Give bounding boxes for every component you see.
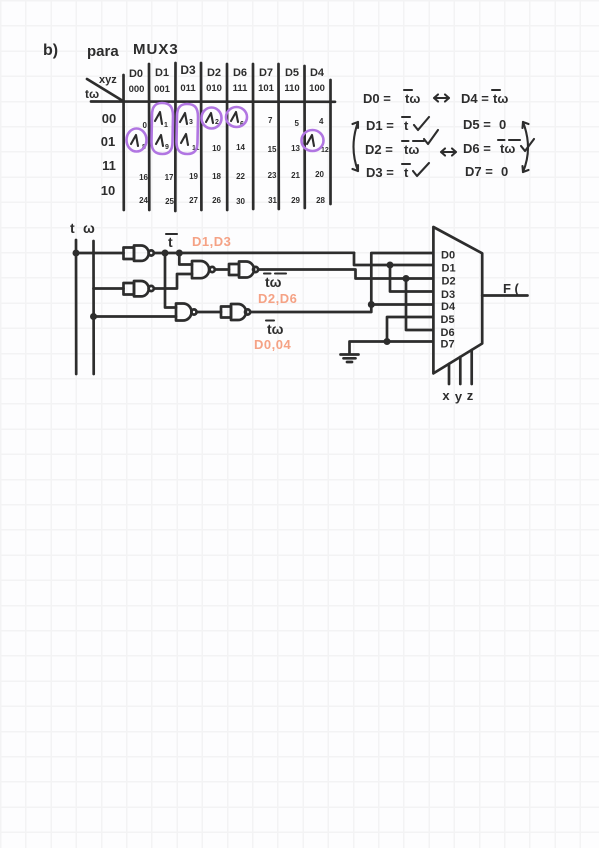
- NAND N1: [192, 261, 215, 278]
- svg-text:D6 =: D6 =: [463, 141, 491, 156]
- svg-text:D5: D5: [285, 67, 299, 79]
- wire tbar output: [154, 251, 354, 254]
- equation D5: [463, 117, 506, 132]
- svg-text:D2: D2: [207, 67, 221, 79]
- wire branch to D6: [406, 279, 433, 331]
- inverter U4: [221, 304, 250, 320]
- svg-text:D4: D4: [441, 301, 456, 313]
- wire tbar w to D0: [250, 253, 433, 312]
- svg-text:ω: ω: [83, 220, 95, 236]
- node label tbar wbar: [264, 274, 286, 291]
- svg-text:D3 =: D3 =: [366, 165, 394, 180]
- svg-text:D1: D1: [442, 263, 456, 275]
- svg-text:D6: D6: [233, 67, 247, 79]
- junction tbar A: [162, 250, 169, 257]
- table column headers: [129, 63, 325, 80]
- svg-text:21: 21: [291, 171, 300, 180]
- junction tbar B: [176, 250, 183, 257]
- svg-text:D0 =: D0 =: [363, 91, 391, 106]
- svg-text:D2 =: D2 =: [365, 142, 393, 157]
- net label D1,D3: [192, 234, 231, 249]
- junction D1/D3: [387, 262, 394, 269]
- wire tbar wbar to D2: [258, 270, 433, 279]
- table header bottom line: [91, 100, 335, 103]
- table column line 1: [122, 75, 125, 210]
- wire w to NAND N2: [94, 315, 177, 318]
- input labels t w: [70, 220, 95, 236]
- svg-text:D7: D7: [259, 67, 273, 79]
- wire branch to D5: [387, 317, 433, 342]
- svg-text:110: 110: [284, 83, 299, 94]
- svg-text:29: 29: [291, 196, 300, 205]
- svg-text:7: 7: [268, 116, 273, 125]
- svg-text:para: para: [87, 43, 119, 60]
- ground symbol: [341, 355, 359, 363]
- svg-text:0: 0: [501, 164, 508, 179]
- select line x: [448, 364, 451, 384]
- inverter U3: [229, 262, 258, 278]
- equation D2: [365, 130, 456, 157]
- minterm numbers row 10: [139, 196, 325, 206]
- table column line 6: [252, 64, 255, 209]
- svg-text:D7: D7: [441, 339, 455, 351]
- svg-text:26: 26: [212, 196, 221, 205]
- svg-text:D0,04: D0,04: [254, 337, 291, 352]
- svg-text:0: 0: [143, 121, 148, 130]
- wire tbar down to NAND N1: [179, 253, 192, 265]
- svg-text:D2: D2: [442, 276, 456, 288]
- svg-text:22: 22: [236, 172, 245, 181]
- table column line 5: [226, 64, 229, 210]
- svg-text:1: 1: [164, 122, 168, 129]
- svg-text:D1,D3: D1,D3: [192, 234, 231, 249]
- svg-text:001: 001: [154, 84, 171, 95]
- table column line 2: [148, 64, 151, 210]
- mux pin labels D0-D7: [441, 250, 456, 351]
- wire w to inverter U2: [94, 287, 124, 290]
- wire tbar down to NAND N2: [165, 253, 176, 308]
- svg-text:D4 =: D4 =: [461, 91, 489, 106]
- svg-text:10: 10: [101, 183, 115, 198]
- NAND N2: [176, 304, 197, 321]
- table column line 7: [277, 64, 280, 209]
- w rail: [92, 241, 95, 374]
- select line z: [470, 350, 473, 384]
- svg-text:tω: tω: [500, 141, 515, 156]
- table column line 8: [303, 66, 306, 208]
- minterm numbers row 01: [212, 143, 300, 154]
- junction D5/D7: [384, 338, 391, 345]
- svg-text:010: 010: [206, 83, 222, 94]
- svg-text:12: 12: [321, 147, 329, 154]
- table column line 4: [200, 63, 203, 210]
- svg-text:x: x: [442, 388, 450, 403]
- svg-text:D6: D6: [441, 327, 455, 339]
- select labels x y z: [442, 388, 473, 404]
- handwritten 1 marks with subscripts: [131, 112, 329, 154]
- svg-text:F (: F (: [503, 281, 520, 296]
- svg-text:100: 100: [309, 83, 325, 94]
- equation D6: [463, 139, 534, 156]
- table code row: [129, 83, 325, 95]
- wire ground to D7: [350, 342, 434, 354]
- table column line 3: [174, 63, 177, 211]
- svg-text:D1 =: D1 =: [366, 118, 394, 133]
- svg-text:tω: tω: [267, 321, 284, 337]
- svg-text:14: 14: [236, 143, 245, 152]
- select line y: [459, 357, 462, 384]
- svg-text:31: 31: [268, 196, 277, 205]
- title b) para MUX3: [43, 41, 179, 60]
- svg-text:D4: D4: [310, 67, 325, 79]
- node label tbar w: [266, 321, 284, 338]
- net label D0,04: [254, 337, 291, 352]
- inverter U2 (w): [124, 281, 154, 296]
- svg-text:00: 00: [102, 111, 116, 126]
- svg-text:10: 10: [212, 144, 221, 153]
- output wire F: [482, 294, 527, 297]
- svg-text:3: 3: [189, 119, 193, 126]
- svg-text:MUX3: MUX3: [133, 41, 179, 58]
- svg-text:b): b): [43, 42, 58, 59]
- table right edge line: [329, 80, 332, 204]
- svg-text:t: t: [404, 165, 409, 180]
- svg-text:D1: D1: [155, 67, 169, 79]
- purple loop D4 cell: [302, 130, 324, 151]
- svg-text:D3: D3: [441, 289, 455, 301]
- purple loop D0 cell: [127, 129, 147, 152]
- svg-text:19: 19: [189, 172, 198, 181]
- multiplexer MUX3 body: [433, 227, 482, 373]
- junction D0/D4: [368, 301, 375, 308]
- svg-text:16: 16: [139, 173, 148, 182]
- svg-text:t: t: [404, 118, 409, 133]
- svg-text:tω: tω: [265, 274, 282, 290]
- wire branch to D3: [390, 265, 433, 292]
- svg-text:17: 17: [165, 173, 174, 182]
- svg-text:D5 =: D5 =: [463, 117, 491, 132]
- svg-text:D0: D0: [441, 250, 455, 262]
- svg-text:9: 9: [165, 144, 169, 151]
- svg-text:tω: tω: [85, 87, 99, 101]
- wire wbar to NAND N1: [154, 274, 192, 289]
- svg-text:30: 30: [236, 197, 245, 206]
- inverter U1 (t): [124, 246, 154, 261]
- svg-text:D7 =: D7 =: [465, 164, 493, 179]
- net label D2,D6: [258, 291, 297, 306]
- svg-text:D0: D0: [129, 68, 143, 80]
- svg-text:4: 4: [319, 117, 324, 126]
- svg-text:01: 01: [101, 134, 115, 149]
- equation D1: [366, 117, 429, 133]
- output label F(: [503, 281, 520, 296]
- purple loop D2 cell: [202, 108, 222, 129]
- svg-text:25: 25: [165, 197, 174, 206]
- svg-text:D2,D6: D2,D6: [258, 291, 297, 306]
- purple loop D6 cell: [226, 107, 247, 127]
- purple loop D1 column: [152, 103, 174, 154]
- svg-text:111: 111: [233, 83, 249, 94]
- wire N2 to inverter U4: [197, 311, 221, 314]
- svg-text:tω: tω: [493, 91, 508, 106]
- svg-text:23: 23: [268, 171, 277, 180]
- minterm numbers row 11: [139, 170, 324, 182]
- svg-text:27: 27: [189, 196, 198, 205]
- svg-text:101: 101: [258, 83, 275, 94]
- svg-text:15: 15: [268, 145, 277, 154]
- minterm numbers row 00: [143, 116, 325, 130]
- right swap arrow D5-D7: [523, 122, 529, 172]
- equation D7: [465, 164, 508, 179]
- svg-text:D3: D3: [180, 63, 196, 77]
- junction t rail: [73, 250, 80, 257]
- wire branch to D4: [371, 303, 433, 306]
- svg-text:20: 20: [315, 170, 324, 179]
- wire N1 to inverter U3: [215, 268, 229, 271]
- svg-text:24: 24: [139, 196, 148, 205]
- t rail: [75, 240, 78, 374]
- svg-text:28: 28: [316, 196, 325, 205]
- wire tbar to D1: [354, 253, 433, 265]
- equation D4: [461, 90, 508, 106]
- svg-text:0: 0: [499, 117, 506, 132]
- svg-text:18: 18: [212, 172, 221, 181]
- junction w rail: [90, 313, 97, 320]
- svg-text:13: 13: [291, 144, 300, 153]
- node label tbar: [166, 234, 177, 250]
- svg-text:t: t: [168, 234, 173, 250]
- equation D3: [366, 163, 429, 180]
- svg-text:11: 11: [102, 158, 116, 173]
- table row labels: [101, 111, 116, 198]
- left swap arrow D1-D3: [353, 122, 359, 171]
- svg-text:tω: tω: [405, 91, 420, 106]
- svg-text:xyz: xyz: [99, 74, 117, 86]
- svg-text:D5: D5: [441, 314, 455, 326]
- svg-text:tω: tω: [404, 142, 419, 157]
- arrow D0-D4: [434, 95, 449, 102]
- svg-text:t: t: [70, 220, 75, 236]
- wire t to inverter U1: [76, 252, 124, 255]
- equation D0: [363, 90, 420, 106]
- svg-text:5: 5: [295, 119, 300, 128]
- purple loop D3 column: [177, 104, 199, 154]
- table header diagonal: [85, 74, 123, 101]
- svg-text:z: z: [467, 388, 474, 403]
- junction D2/D6: [403, 275, 410, 282]
- svg-text:y: y: [455, 389, 463, 404]
- svg-text:011: 011: [180, 83, 196, 94]
- svg-text:000: 000: [129, 84, 145, 95]
